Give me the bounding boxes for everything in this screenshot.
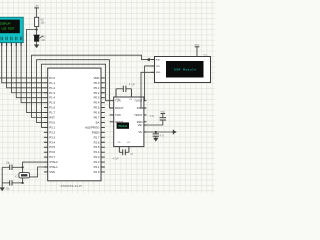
svg-text:P1.1: P1.1 [49,81,55,85]
svg-text:T2OUT: T2OUT [134,114,143,117]
svg-text:P3.5: P3.5 [49,145,55,149]
capacitor C3 (C1+/C1-) [116,84,135,92]
node resistor/pot junction [35,28,37,30]
wire GSM GND to MAX232 R1IN [141,72,155,108]
svg-text:LCD DISPLAY: LCD DISPLAY [0,22,11,25]
svg-text:C2-: C2- [127,142,131,144]
svg-text:EA: EA [96,120,100,124]
wire VS- to supply arrow [144,131,173,133]
svg-text:10K: 10K [41,39,46,42]
svg-text:P2.1: P2.1 [94,165,100,169]
LCD display LCD1 [0,17,23,42]
MAX232 name plate [117,122,129,128]
wire R2 to RV1 [36,27,38,36]
svg-text:P0.7: P0.7 [94,116,100,120]
svg-text:P3.7: P3.7 [49,155,55,159]
svg-text:P1.5: P1.5 [49,101,55,105]
svg-text:P0.1: P0.1 [94,86,100,90]
svg-text:P1.2: P1.2 [49,86,55,90]
svg-text:XTAL1: XTAL1 [49,165,58,169]
power VCC (MAX232) [161,113,166,115]
svg-text:P2.4: P2.4 [94,150,100,154]
svg-text:P2.0: P2.0 [94,170,100,174]
power VCC (GSM) [195,45,200,57]
svg-text:P0.4: P0.4 [94,101,100,105]
svg-text:MAX232: MAX232 [118,125,127,128]
svg-text:VCC: VCC [195,45,200,47]
node crystal bottom [21,182,23,184]
ground (crystal) [0,188,5,191]
svg-text:P3.6: P3.6 [49,150,55,154]
svg-text:P0.0: P0.0 [94,81,100,85]
GSM module [151,54,210,82]
wire crystal branch [22,167,24,172]
svg-text:P0.2: P0.2 [94,91,100,95]
wire RV1 to ground [36,41,38,44]
node crystal top [21,166,23,168]
ground (pot) [34,45,39,48]
svg-text:P2.6: P2.6 [94,140,100,144]
svg-text:P1.7: P1.7 [49,111,55,115]
svg-text:P3.4: P3.4 [49,140,55,144]
svg-text:P1.3: P1.3 [49,91,55,95]
svg-text:VCC: VCC [203,54,208,56]
svg-text:P3.0: P3.0 [49,120,55,124]
svg-text:VDD: VDD [93,76,99,80]
power arrow [172,130,174,135]
LCD pin stubs [2,43,21,46]
wire P3.0 RXD loop to GSM [32,55,155,117]
svg-text:GSM LCD TEST: GSM LCD TEST [0,28,15,31]
svg-text:4.7uF: 4.7uF [129,84,135,86]
wire GSM TXD to MAX232 T1OUT [144,66,155,101]
svg-text:P2.3: P2.3 [94,155,100,159]
svg-text:+5V: +5V [35,6,39,8]
capacitor C5 (VS+ to VCC) [144,114,166,125]
svg-text:4.7u: 4.7u [160,136,165,138]
svg-text:GSM Module: GSM Module [174,67,197,71]
ground (C6) [153,138,158,141]
svg-text:TXD: TXD [156,66,161,68]
capacitor C6 to ground [153,131,165,138]
wire XTAL1 to crystal [30,167,45,177]
svg-text:T1OUT: T1OUT [134,100,143,103]
svg-text:P2.2: P2.2 [94,160,100,164]
capacitor C2 [2,180,22,190]
svg-text:C1-: C1- [129,99,133,101]
power +5V (top) [34,6,39,18]
svg-text:VCC: VCC [160,111,165,113]
crystal X1 [15,173,30,179]
capacitor C4 (C2+/C2-) [113,149,134,160]
svg-text:PSEN: PSEN [92,130,100,134]
resistor R2 10k [35,17,46,26]
wire contrast to MCU [27,30,45,113]
svg-text:T2IN: T2IN [115,114,121,117]
wire P3.2 loop to MAX232 T1IN [42,64,110,127]
svg-text:AT89C52-24-PI: AT89C52-24-PI [61,184,83,188]
svg-text:P1.0: P1.0 [49,76,55,80]
svg-text:ALE/PROG: ALE/PROG [85,125,99,129]
svg-text:R1IN: R1IN [137,107,143,110]
wire P3.1 TXD loop to MAX232 R1OUT [37,60,110,123]
svg-text:P3.3: P3.3 [49,135,55,139]
capacitor C1 [2,163,22,170]
svg-text:P0.5: P0.5 [94,106,100,110]
svg-text:VS+: VS+ [138,124,143,127]
svg-text:P1.6: P1.6 [49,106,55,110]
svg-text:VS-: VS- [138,131,142,134]
svg-text:4.7uF: 4.7uF [113,158,119,160]
wire LCD D-bus to MCU (staircase) [0,43,44,103]
arrow RXD [146,58,150,62]
svg-text:XTAL2: XTAL2 [49,160,58,164]
svg-text:P1.4: P1.4 [49,96,55,100]
svg-text:P2.7: P2.7 [94,135,100,139]
svg-text:P3.2: P3.2 [49,130,55,134]
wire XTAL2 to crystal [23,162,45,167]
svg-text:P3.1: P3.1 [49,125,55,129]
svg-text:P0.3: P0.3 [94,96,100,100]
MCU U1 AT89C52 [44,68,105,188]
svg-text:P2.5: P2.5 [94,145,100,149]
svg-text:P0.6: P0.6 [94,111,100,115]
svg-text:R1OUT: R1OUT [115,107,124,110]
svg-text:RST: RST [49,116,55,120]
MAX232 U2 [110,89,147,153]
svg-text:4.7u: 4.7u [150,116,155,118]
svg-text:RXD: RXD [156,60,161,62]
svg-text:VSS: VSS [49,170,55,174]
potentiometer RV1 [34,35,47,42]
svg-text:GND: GND [156,72,161,74]
wire ground rail [1,167,3,187]
